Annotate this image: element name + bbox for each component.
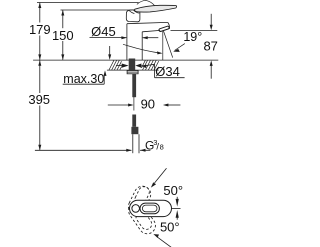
deck bottom line <box>107 69 159 71</box>
svg-text:90: 90 <box>141 97 155 112</box>
max30 top arrow shaft <box>109 46 111 55</box>
dimension line 179 lower segment <box>39 36 41 60</box>
svg-text:179: 179 <box>29 22 51 37</box>
bottom view slot outer <box>140 203 159 214</box>
arrowhead G3-8 right <box>140 149 146 152</box>
svg-text:max.30: max.30 <box>63 72 104 86</box>
lever top thin arc <box>137 0 155 5</box>
threaded rod upper segment <box>132 74 136 97</box>
arrowhead 179 top <box>38 3 41 9</box>
svg-text:Ø45: Ø45 <box>91 24 116 39</box>
extension line hose bottom / G3-8 left arrow shaft <box>35 149 131 151</box>
arrowhead G3-8 left <box>126 149 132 152</box>
extension line 87 top (spout outlet level) <box>171 29 218 31</box>
bottom view shank circle <box>132 205 140 213</box>
arrowhead lower 50 leader <box>153 234 159 238</box>
svg-text:395: 395 <box>28 92 50 107</box>
dimension 90 left shaft <box>108 104 128 106</box>
deck hatch right block <box>142 60 159 70</box>
arrowhead 90 left <box>128 104 134 107</box>
bottom view slot inner <box>142 205 157 212</box>
dimension line 179 upper segment <box>39 3 41 23</box>
arrowhead 150 bottom <box>61 54 64 60</box>
Ø34 leader arrowhead <box>141 65 147 68</box>
dimension line 395 upper segment <box>39 61 41 94</box>
arrowhead 87 top <box>210 25 213 31</box>
max30 riser line <box>103 75 105 84</box>
swivel axis marker bottom arrow <box>176 210 179 218</box>
Ø34 label left riser <box>154 64 156 77</box>
bottom view stadium body <box>130 200 172 216</box>
19 degree leader line <box>175 44 185 51</box>
faucet body right edge <box>141 32 143 60</box>
arrowhead 19 degree leader <box>173 49 180 52</box>
swivel axis marker centerline <box>172 208 181 210</box>
svg-text:87: 87 <box>203 38 217 53</box>
spout right end edge <box>168 22 170 28</box>
ghost outline rotated +55 (stadium and slot) <box>126 183 154 217</box>
angle arc arrow <box>123 44 161 53</box>
arrowhead max30 bottom <box>104 70 107 76</box>
dimension line 45 right <box>143 37 159 39</box>
hose collar <box>131 127 138 134</box>
body and spout top line <box>127 22 168 23</box>
lower 50 leader line <box>158 237 172 247</box>
Ø34 label underline <box>155 77 185 79</box>
svg-text:Ø34: Ø34 <box>155 64 180 79</box>
deck hatch left block <box>109 60 122 70</box>
swivel axis marker top arrow <box>176 197 178 200</box>
extension line 150 height reference <box>61 9 140 11</box>
svg-text:50°: 50° <box>160 219 180 234</box>
arrowhead max30 top <box>108 54 111 60</box>
arrowhead 395 bottom <box>38 145 41 151</box>
hose tube right edge <box>138 134 140 153</box>
arrowhead upper 50 leader <box>151 182 156 187</box>
upper 50 leader line <box>155 168 167 183</box>
spout underside line <box>142 30 160 31</box>
lever knob outline <box>126 10 140 22</box>
hose tube left edge <box>132 134 134 153</box>
Ø34 leader line <box>146 64 155 65</box>
arrowhead angle arc <box>157 51 163 54</box>
dimension 90 right shaft <box>168 104 181 106</box>
hole arrow left (points at shank) <box>122 64 129 68</box>
svg-text:19°: 19° <box>183 30 202 44</box>
aerator capsule <box>159 26 169 31</box>
svg-text:8: 8 <box>160 143 164 152</box>
extension line 90 right <box>133 97 135 111</box>
svg-text:150: 150 <box>52 28 74 43</box>
washer flange midline <box>127 71 138 73</box>
deck top line <box>33 59 218 61</box>
threaded rod lower segment <box>132 115 136 127</box>
lever neck curl <box>133 10 139 13</box>
water stream 19 degree line <box>164 31 173 58</box>
arrowhead 90 right <box>163 104 169 107</box>
extension line top (179 height reference) <box>37 2 139 4</box>
dimension line 150 upper segment <box>62 10 64 28</box>
water stream vertical line <box>162 31 164 60</box>
shank through deck (threaded) <box>129 59 136 71</box>
dimension line 150 lower segment <box>62 41 64 60</box>
faucet body left edge <box>126 24 128 60</box>
arrowhead 395 top <box>38 60 41 66</box>
max30 underline <box>63 83 104 85</box>
hole arrow right (points at shank) <box>135 64 141 68</box>
dimension line 45 left with underline <box>90 37 127 39</box>
dimension line 87 bottom arrow shaft <box>210 65 212 79</box>
arrowhead 87 bottom <box>210 60 213 66</box>
arrowhead 45 right <box>142 36 148 39</box>
dimension line 87 top arrow shaft <box>210 14 212 26</box>
lever neck curl 2 <box>129 11 134 14</box>
svg-text:50°: 50° <box>163 183 183 198</box>
arrowhead 150 top <box>61 10 64 16</box>
ghost outline rotated -55 (stadium and slot) <box>125 199 158 237</box>
arrowhead 45 left <box>121 36 127 39</box>
arrowhead 179 bottom <box>38 54 41 60</box>
lever blade <box>135 5 177 12</box>
G3-8 right arrow shaft <box>140 149 150 151</box>
washer flange below deck <box>127 71 138 74</box>
dimension line 395 lower segment <box>39 106 41 151</box>
